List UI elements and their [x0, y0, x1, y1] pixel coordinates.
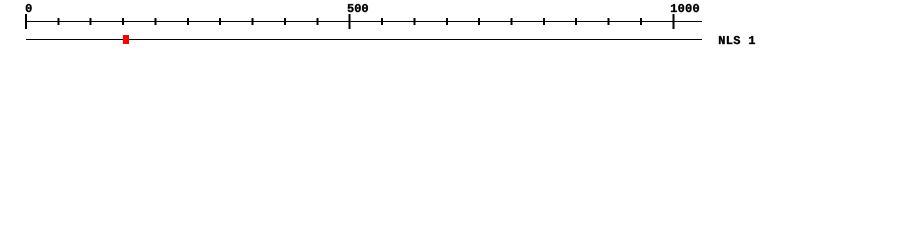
minor tick 100 [90, 18, 92, 25]
minor tick 50 [57, 18, 59, 25]
ruler axis line [26, 21, 702, 22]
minor tick 350 [252, 18, 254, 25]
minor tick 250 [187, 18, 189, 25]
major tick 0 [25, 14, 27, 29]
feature label NLS 1 [719, 36, 755, 44]
ruler scale label 0 [26, 4, 32, 12]
minor tick 950 [640, 18, 642, 25]
minor tick 150 [122, 18, 124, 25]
minor tick 550 [381, 18, 383, 25]
major tick 1000 [672, 14, 674, 29]
minor tick 300 [219, 18, 221, 25]
ruler scale label 1000 [671, 4, 699, 12]
minor tick 750 [511, 18, 513, 25]
minor tick 850 [575, 18, 577, 25]
ruler scale label 500 [348, 4, 368, 12]
minor tick 600 [413, 18, 415, 25]
minor tick 900 [608, 18, 610, 25]
minor tick 450 [316, 18, 318, 25]
minor tick 800 [543, 18, 545, 25]
feature box NLS 1 (red) [123, 35, 129, 44]
minor tick 400 [284, 18, 286, 25]
minor tick 200 [155, 18, 157, 25]
major tick 500 [349, 14, 351, 29]
sequence backbone line [26, 39, 702, 40]
minor tick 700 [478, 18, 480, 25]
minor tick 650 [446, 18, 448, 25]
